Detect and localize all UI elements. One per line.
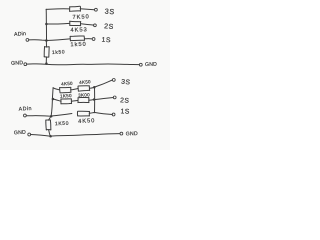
node ADin terminal <box>26 39 29 42</box>
svg-text:2S: 2S <box>120 97 130 105</box>
wire <box>89 99 94 102</box>
svg-text:3K00: 3K00 <box>78 92 90 98</box>
wire <box>29 39 47 42</box>
node 3S terminal <box>95 8 98 11</box>
svg-text:1S: 1S <box>120 108 130 115</box>
node junction <box>93 86 96 89</box>
resistor RB1 <box>61 99 72 104</box>
svg-text:1S: 1S <box>101 37 111 44</box>
wire <box>46 8 69 11</box>
wire <box>49 130 51 136</box>
svg-text:3S: 3S <box>104 7 115 17</box>
wire <box>71 88 78 89</box>
svg-text:4K50: 4K50 <box>61 81 73 87</box>
wire: GND rail <box>31 135 51 137</box>
node GND terminal left <box>28 133 31 136</box>
wire <box>51 114 72 117</box>
resistor R1 7K50 <box>69 6 80 11</box>
resistor RA2 <box>78 86 90 92</box>
wire <box>48 116 50 120</box>
node 1S terminal <box>112 113 115 116</box>
node junction <box>45 23 48 26</box>
wire: left bus vertical <box>51 88 53 117</box>
svg-text:4K53: 4K53 <box>70 27 87 34</box>
wire <box>85 38 93 40</box>
svg-text:7K50: 7K50 <box>72 14 89 21</box>
svg-text:ADin: ADin <box>19 106 33 113</box>
node junction ADin <box>50 115 53 118</box>
resistor R4 1k50 vertical <box>44 47 49 58</box>
svg-text:4K50: 4K50 <box>78 118 96 125</box>
resistor RB2 <box>78 97 89 102</box>
wire: right bus vertical <box>94 87 96 113</box>
node junction <box>93 98 96 101</box>
svg-text:1K50: 1K50 <box>55 121 69 127</box>
wire <box>45 57 47 64</box>
node GND terminal left <box>24 63 27 66</box>
node junction gnd <box>45 62 48 65</box>
node junction ADin <box>45 39 48 42</box>
resistor RA1 <box>60 87 71 93</box>
node 1S terminal <box>92 38 95 41</box>
svg-text:GND: GND <box>14 130 27 137</box>
svg-text:GND: GND <box>126 131 138 137</box>
resistor R3 1k50 <box>70 36 84 41</box>
svg-text:1K50: 1K50 <box>60 93 72 99</box>
wire <box>89 112 94 115</box>
node 2S terminal <box>113 96 116 99</box>
wire <box>53 88 59 90</box>
node GND terminal right <box>139 63 142 66</box>
svg-text:1k50: 1k50 <box>70 41 87 49</box>
wire <box>72 99 79 102</box>
wire <box>94 98 113 100</box>
wire: GND rail <box>51 134 120 137</box>
node GND terminal right <box>120 132 123 135</box>
node ADin terminal <box>24 114 27 117</box>
svg-text:GND: GND <box>145 62 157 68</box>
wire <box>90 87 95 88</box>
wire: GND rail <box>27 63 140 66</box>
wire <box>94 112 112 114</box>
resistor R2 4K53 <box>70 21 81 25</box>
wire: ADin bus vertical <box>45 9 47 40</box>
svg-text:2S: 2S <box>104 23 114 31</box>
resistor RD 1K50 vertical <box>46 120 51 130</box>
svg-text:ADin: ADin <box>14 31 26 38</box>
wire <box>46 22 69 25</box>
wire <box>46 39 70 41</box>
wire <box>26 115 51 118</box>
svg-text:3S: 3S <box>121 79 131 87</box>
node 2S terminal <box>94 24 97 27</box>
node junction gnd <box>49 135 52 138</box>
svg-text:1k50: 1k50 <box>52 49 66 56</box>
svg-text:4K50: 4K50 <box>79 79 91 85</box>
node junction <box>52 98 55 101</box>
resistor RC 4K50 <box>77 111 89 116</box>
svg-text:GND: GND <box>11 60 23 67</box>
node 3S terminal <box>112 79 115 82</box>
wire <box>81 24 94 25</box>
wire <box>45 40 47 47</box>
wire <box>53 99 61 101</box>
wire <box>80 9 94 10</box>
wire <box>94 80 112 87</box>
